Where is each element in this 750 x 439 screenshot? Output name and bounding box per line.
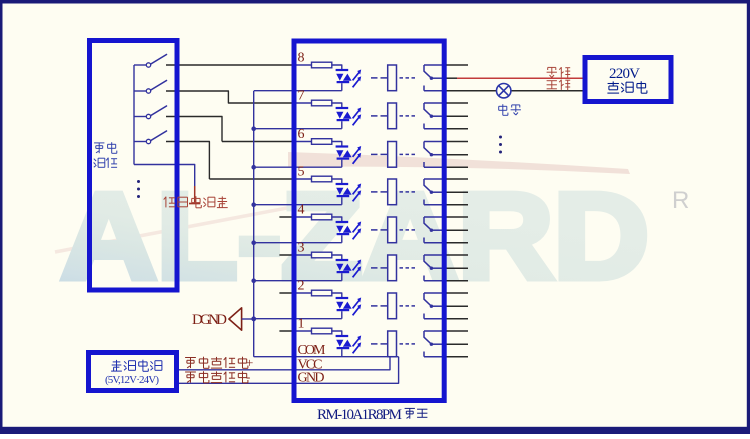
opto-coupler U8 emission arrows	[353, 70, 362, 88]
wire: R3 to opto LED	[332, 255, 342, 259]
switch S3	[134, 106, 167, 119]
junction DGND/bus	[251, 317, 256, 322]
relay K1 mechanical link dashes	[371, 343, 415, 345]
wire: switch S4 step down	[166, 142, 209, 180]
relay K8 coil	[388, 65, 397, 91]
relay K4 mechanical link dashes	[371, 229, 415, 231]
terminal stubs channel 2	[447, 293, 469, 319]
terminal stubs channel 5	[447, 179, 469, 205]
wire: channel 7 return	[254, 128, 342, 130]
opto-coupler U4 emission arrows	[353, 222, 362, 240]
svg-text:RM-10A1R8PM: RM-10A1R8PM	[317, 407, 402, 423]
relay K6 coil	[388, 142, 397, 168]
svg-text:-: -	[246, 369, 250, 384]
wire: channel 3 return	[254, 280, 342, 282]
svg-text:5: 5	[298, 165, 305, 180]
terminal stubs channel 1	[447, 331, 469, 357]
wire: switch S1 to channel 8 input	[166, 64, 295, 66]
label: DC power (hanzi)	[111, 360, 162, 372]
resistor R5	[312, 176, 332, 182]
wire: signal power lead (red)	[194, 186, 196, 204]
wire: neutral wire through lamp	[447, 90, 587, 92]
label: AC power (hanzi)	[607, 81, 647, 93]
relay K3 mechanical link dashes	[371, 267, 415, 269]
relay K8 mechanical link dashes	[371, 77, 415, 79]
terminal stubs channel 8	[447, 64, 469, 66]
wire: channel 3 input stub	[279, 254, 294, 256]
relay K7 coil	[388, 103, 397, 129]
wire: channel 2 return	[254, 318, 342, 320]
junction on return bus (ch 3)	[251, 278, 256, 283]
svg-text:GND: GND	[298, 371, 325, 386]
wire: bus bottom to signal power	[134, 165, 195, 187]
relay K1 coil	[388, 331, 397, 357]
label: electric lamp (hanzi)	[499, 104, 521, 115]
wire: R1 to opto LED	[332, 331, 342, 335]
junction on return bus (ch 2)	[251, 316, 256, 321]
node: signal power terminal tick	[189, 203, 200, 205]
relay K2 contact	[424, 293, 447, 319]
resistor R4	[312, 214, 332, 220]
watermark logo AL-ZARD	[55, 152, 649, 304]
wire: channel 5 input	[209, 178, 294, 180]
relay K6 contact	[424, 142, 447, 168]
wire: channel 5 return	[254, 204, 342, 206]
relay K2 coil	[388, 293, 397, 319]
svg-text:6: 6	[298, 127, 305, 142]
ellipsis dots in manual box	[137, 180, 140, 198]
wire: DGND to bus	[242, 318, 254, 320]
svg-text:1: 1	[298, 317, 305, 332]
wire: channel 8 return	[254, 90, 342, 92]
relay K7 mechanical link dashes	[371, 115, 415, 117]
wire: live wire (red) to AC box	[457, 77, 587, 79]
switch S4	[134, 131, 167, 144]
relay K1 contact	[424, 331, 447, 357]
opto-coupler U4 LED	[336, 221, 352, 243]
opto-coupler U7 LED	[336, 107, 352, 129]
svg-text:(5V,12V·24V): (5V,12V·24V)	[105, 374, 159, 386]
wire: channel 2 input stub	[279, 292, 294, 294]
relay K4 coil	[388, 217, 397, 243]
relay K5 contact	[424, 179, 447, 205]
wire: R7 to opto LED	[332, 103, 342, 107]
relay K2 mechanical link dashes	[371, 305, 415, 307]
wire: channel 4 input stub	[279, 216, 294, 218]
label: manual operation (hanzi)	[94, 142, 118, 168]
relay K8 contact	[424, 65, 447, 91]
svg-text:7: 7	[298, 89, 305, 104]
wire: channel 4 return	[254, 242, 342, 244]
switch S2	[134, 81, 167, 94]
ellipsis dots below lamp	[499, 136, 502, 154]
svg-text:COM: COM	[298, 343, 327, 358]
opto-coupler U8 LED	[336, 69, 352, 91]
box: relay module RM-10A1R8PM	[294, 41, 444, 401]
wire: opto return bus	[253, 91, 255, 357]
opto-coupler U1 emission arrows	[353, 336, 362, 354]
relay K5 mechanical link dashes	[371, 191, 415, 193]
label: live wire (hanzi red)	[547, 67, 571, 78]
svg-text:+: +	[246, 355, 253, 370]
wire: channel 6 return	[254, 166, 342, 168]
opto-coupler U6 emission arrows	[353, 146, 362, 164]
label: signal power positive (hanzi, red)	[164, 196, 228, 208]
wire: R8 to opto LED	[332, 65, 342, 69]
relay K3 contact	[424, 255, 447, 281]
opto-coupler U1 LED	[336, 335, 352, 357]
relay K5 coil	[388, 179, 397, 205]
wire: R2 to opto LED	[332, 293, 342, 297]
wire: VCC rail	[178, 357, 391, 370]
svg-text:4: 4	[298, 203, 305, 218]
terminal stubs channel 7	[447, 103, 469, 129]
lamp EL1	[497, 84, 511, 98]
svg-text:220V: 220V	[609, 66, 640, 82]
label: module supply + (hanzi red)	[185, 355, 253, 370]
label: module name RM-10A1R8PM	[317, 407, 427, 423]
opto-coupler U5 LED	[336, 183, 352, 205]
junction on return bus (ch 5)	[251, 202, 256, 207]
terminal stubs channel 6	[447, 142, 469, 168]
svg-text:3: 3	[298, 241, 305, 256]
opto-coupler U6 LED	[336, 145, 352, 167]
junction on return bus (ch 6)	[251, 165, 256, 170]
svg-text:DGND: DGND	[192, 312, 227, 328]
terminal stubs channel 3	[447, 255, 469, 281]
resistor R7	[312, 100, 332, 106]
opto-coupler U7 emission arrows	[353, 108, 362, 126]
ground DGND symbol	[229, 308, 242, 330]
wire: R5 to opto LED	[332, 179, 342, 183]
svg-text:R: R	[672, 187, 689, 214]
svg-text:8: 8	[298, 51, 305, 66]
resistor R6	[312, 139, 332, 145]
opto-coupler U2 LED	[336, 297, 352, 319]
wire: R4 to opto LED	[332, 217, 342, 221]
box: manual operation	[90, 41, 178, 291]
relay K4 contact	[424, 217, 447, 243]
opto-coupler U3 emission arrows	[353, 260, 362, 278]
switch S1	[134, 55, 167, 68]
resistor R3	[312, 252, 332, 258]
terminal stubs channel 4	[447, 217, 469, 243]
resistor R2	[312, 290, 332, 296]
svg-text:2: 2	[298, 279, 305, 294]
relay K6 mechanical link dashes	[371, 153, 415, 155]
resistor R8	[312, 62, 332, 68]
wire: switch common bus	[133, 65, 135, 165]
wire: live wire black stub	[447, 77, 458, 79]
relay K7 contact	[424, 103, 447, 129]
opto-coupler U3 LED	[336, 259, 352, 281]
relay K3 coil	[388, 255, 397, 281]
box: DC power source	[89, 353, 177, 391]
label: module supply - (hanzi red)	[185, 369, 250, 384]
wire: channel 1 input stub	[279, 330, 294, 332]
resistor R1	[312, 328, 332, 334]
wire: R6 to opto LED	[332, 142, 342, 146]
label: neutral wire (hanzi red)	[547, 80, 571, 91]
opto-coupler U2 emission arrows	[353, 298, 362, 316]
junction on return bus (ch 4)	[251, 240, 256, 245]
opto-coupler U5 emission arrows	[353, 184, 362, 202]
wire: switch S2 to channel 7 input	[166, 91, 295, 103]
wire: GND rail	[178, 357, 399, 384]
wire: switch S3 step down	[166, 117, 222, 142]
wire: channel 6 input	[222, 141, 295, 143]
wire: COM rail (ch1 return)	[254, 356, 399, 358]
box: 220V AC source	[585, 58, 671, 102]
junction on return bus (ch 7)	[251, 126, 256, 131]
